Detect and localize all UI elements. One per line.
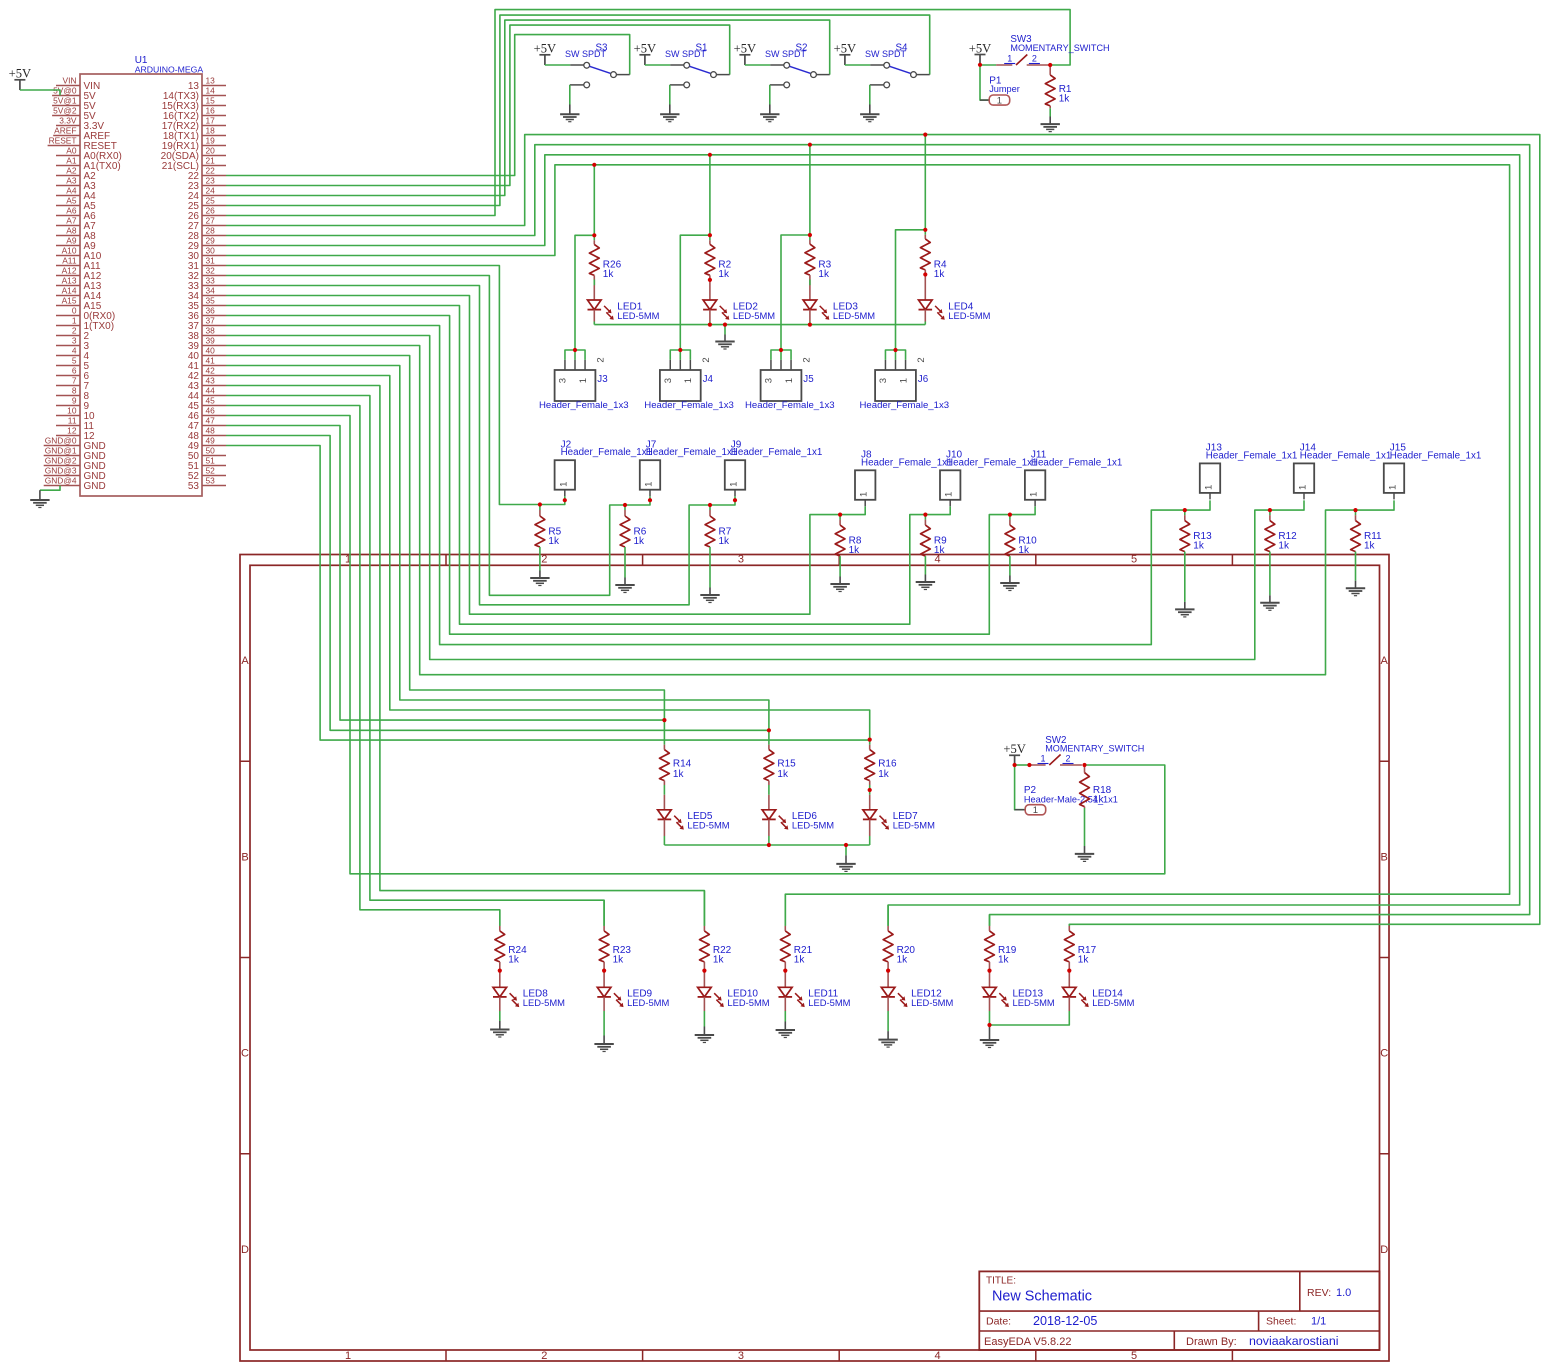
ground stem (R11)	[1355, 581, 1357, 589]
U1 pin A3	[56, 176, 96, 192]
resistor R9	[921, 515, 948, 557]
ground stem (R7)	[709, 588, 711, 596]
svg-text:J6: J6	[918, 374, 929, 385]
wire R7 to ground	[709, 547, 711, 588]
wire net pin28	[226, 145, 1530, 926]
svg-text:SW SPDT: SW SPDT	[665, 49, 707, 59]
resistor R22	[700, 891, 732, 971]
svg-text:32: 32	[206, 266, 216, 276]
wire R12 to ground	[1269, 552, 1271, 596]
svg-text:LED-5MM: LED-5MM	[911, 997, 953, 1008]
U1 pin 3	[56, 336, 90, 352]
wire R1 to ground	[1049, 108, 1051, 116]
svg-text:24: 24	[206, 186, 216, 196]
svg-text:A14: A14	[62, 286, 77, 296]
U1 pin A15	[56, 296, 102, 312]
U1 pin 0	[56, 306, 115, 322]
wire net pin43	[226, 386, 704, 926]
U1 pin 1	[56, 316, 114, 332]
wire net pin30	[226, 165, 1510, 926]
wire net pin42	[226, 376, 870, 740]
resistor R23	[599, 900, 631, 970]
svg-text:1: 1	[944, 492, 955, 497]
wire net pin34	[226, 296, 865, 615]
resistor R24	[495, 910, 527, 971]
LED LED14	[1063, 971, 1135, 1011]
U1 pin AREF	[53, 126, 110, 142]
svg-text:21: 21	[206, 156, 216, 166]
resistor R17	[1064, 924, 1096, 970]
ground (R13)	[1175, 609, 1194, 617]
svg-text:5V@2: 5V@2	[53, 106, 77, 116]
U1 pin GND@3	[44, 466, 106, 482]
svg-text:B: B	[241, 851, 248, 863]
svg-text:1: 1	[558, 482, 569, 487]
svg-text:34: 34	[206, 286, 216, 296]
LED LED3	[803, 286, 875, 325]
U1 pin 42	[188, 366, 226, 382]
power flag +5V (S4)	[834, 42, 857, 65]
svg-text:9: 9	[72, 396, 77, 406]
connector J9 Header_Female_1x1	[725, 440, 823, 497]
U1 pin 15	[162, 96, 226, 112]
svg-text:+5V: +5V	[1003, 742, 1026, 756]
svg-text:2: 2	[541, 1350, 547, 1362]
resistor R21	[780, 894, 812, 970]
wire net pin32	[226, 276, 650, 596]
svg-text:RESET: RESET	[49, 136, 77, 146]
U1 pin 39	[188, 336, 226, 352]
svg-text:Header_Female_1x1: Header_Female_1x1	[1031, 457, 1123, 468]
LED LED10	[698, 971, 770, 1011]
U1 pin 8	[56, 386, 90, 402]
svg-text:A7: A7	[66, 216, 77, 226]
svg-text:2: 2	[596, 357, 607, 362]
wire +5V to SW3 pin1	[980, 64, 996, 66]
svg-text:Jumper: Jumper	[989, 84, 1020, 94]
power flag +5V (S3)	[534, 42, 557, 65]
LED LED13	[983, 971, 1055, 1011]
svg-text:3: 3	[738, 1350, 744, 1362]
switch S4 SW-SPDT	[865, 42, 930, 88]
svg-text:1k: 1k	[718, 269, 730, 280]
resistor R4	[920, 230, 947, 280]
svg-text:SW SPDT: SW SPDT	[865, 49, 907, 59]
svg-text:Header_Female_1x1: Header_Female_1x1	[861, 457, 953, 468]
U1 pin A8	[56, 226, 96, 242]
wire S4 NC throw to ground	[869, 85, 871, 105]
svg-text:noviaakarostiani: noviaakarostiani	[1249, 1334, 1339, 1348]
svg-text:1: 1	[644, 482, 655, 487]
wire ground tap (LED bus)	[724, 325, 726, 335]
svg-text:1: 1	[345, 1350, 351, 1362]
svg-text:LED-5MM: LED-5MM	[733, 310, 775, 321]
svg-text:D: D	[1380, 1244, 1388, 1256]
svg-text:New Schematic: New Schematic	[992, 1289, 1092, 1305]
U1 pin A13	[56, 276, 102, 292]
svg-text:A9: A9	[66, 236, 77, 246]
svg-text:1: 1	[1040, 754, 1045, 764]
svg-text:J4: J4	[703, 374, 714, 385]
ground stem (LED10)	[703, 1027, 705, 1036]
wire net pin33	[226, 286, 735, 605]
ground stem (S1)	[669, 105, 671, 115]
svg-text:SW SPDT: SW SPDT	[565, 49, 607, 59]
svg-text:11: 11	[68, 416, 77, 426]
wire R8 to ground	[839, 556, 841, 576]
svg-text:A6: A6	[66, 206, 77, 216]
wire R18 to ground	[1084, 808, 1086, 846]
svg-text:0: 0	[72, 306, 77, 316]
wire net pin48	[226, 436, 769, 731]
svg-text:4: 4	[72, 346, 77, 356]
svg-text:3: 3	[72, 336, 77, 346]
LED LED7	[863, 795, 935, 845]
svg-text:GND: GND	[84, 481, 106, 492]
svg-text:LED-5MM: LED-5MM	[893, 820, 935, 831]
svg-text:1k: 1k	[508, 955, 520, 966]
power flag +5V (SW3)	[969, 41, 992, 64]
svg-text:53: 53	[206, 476, 216, 486]
ground (S2)	[760, 114, 779, 122]
svg-text:1k: 1k	[1093, 795, 1105, 806]
svg-text:1k: 1k	[897, 955, 909, 966]
svg-text:A1: A1	[66, 156, 77, 166]
svg-text:38: 38	[206, 326, 216, 336]
wire R6 to ground	[624, 547, 626, 578]
svg-text:2: 2	[72, 326, 77, 336]
U1 pin 5V@2	[52, 106, 96, 122]
U1 pin 24	[188, 186, 226, 202]
svg-text:Header_Female_1x1: Header_Female_1x1	[946, 457, 1038, 468]
wire net pin37	[226, 326, 1210, 645]
U1 pin 17	[162, 116, 226, 132]
svg-text:LED-5MM: LED-5MM	[523, 997, 565, 1008]
wire R9 to ground	[924, 556, 926, 574]
wire LED3 column drop	[809, 145, 811, 235]
wire net pin26	[226, 10, 1070, 216]
LED LED4	[919, 286, 991, 325]
U1 pin 46	[188, 406, 226, 422]
U1 pin A1	[56, 156, 121, 172]
U1 pin GND@1	[44, 446, 106, 462]
svg-text:15: 15	[206, 96, 216, 106]
ground stem (R9)	[924, 575, 926, 583]
IC U1 ARDUINO-MEGA body	[80, 55, 203, 496]
wire P1 to +5V	[980, 65, 989, 100]
svg-text:GND@4: GND@4	[45, 476, 77, 486]
svg-text:1k: 1k	[1364, 541, 1376, 552]
U1 pin 49	[188, 436, 226, 452]
resistor R1	[1045, 65, 1072, 108]
wire LED11 to ground	[784, 1011, 786, 1022]
svg-text:+5V: +5V	[969, 41, 992, 55]
svg-text:B: B	[1381, 851, 1388, 863]
connector J6 Header_Female_1x3	[860, 350, 950, 411]
svg-text:C: C	[1380, 1048, 1388, 1060]
ground stem (LED13)	[989, 1025, 991, 1040]
connector J11 Header_Female_1x1	[1025, 450, 1123, 507]
U1 pin GND@2	[44, 456, 106, 472]
svg-text:1: 1	[1204, 485, 1215, 490]
svg-text:25: 25	[206, 196, 216, 206]
ground (R12)	[1260, 603, 1279, 611]
wire net pin27	[226, 135, 1540, 926]
LED LED9	[597, 971, 669, 1011]
svg-text:Header_Female_1x3: Header_Female_1x3	[745, 400, 835, 411]
U1 pin RESET	[48, 136, 117, 152]
ground stem (R8)	[839, 577, 841, 585]
svg-text:+5V: +5V	[834, 42, 857, 56]
U1 pin 3.3V	[56, 116, 104, 132]
U1 pin 33	[188, 276, 226, 292]
svg-text:LED-5MM: LED-5MM	[792, 820, 834, 831]
wire R16-LED7	[869, 781, 871, 785]
svg-text:A3: A3	[66, 176, 77, 186]
U1 pin 16	[163, 106, 226, 122]
ground stem (LED9)	[603, 1036, 605, 1045]
svg-text:44: 44	[206, 386, 216, 396]
U1 pin VIN	[56, 76, 100, 92]
svg-text:1k: 1k	[1059, 93, 1071, 104]
svg-text:7: 7	[72, 376, 77, 386]
svg-text:1k: 1k	[603, 269, 615, 280]
sheet border frame	[240, 554, 1389, 1362]
wire +5V to SW2 pin1	[1015, 764, 1030, 766]
U1 pin 11	[56, 416, 94, 432]
wire net pin31	[226, 266, 565, 505]
svg-text:1k: 1k	[878, 769, 890, 780]
switch S1 SW-SPDT	[665, 42, 730, 88]
svg-text:LED-5MM: LED-5MM	[808, 997, 850, 1008]
wire net pin47	[226, 426, 664, 721]
U1 pin 5V@0	[52, 86, 96, 102]
svg-text:42: 42	[206, 366, 216, 376]
connector J10 Header_Female_1x1	[940, 450, 1038, 507]
svg-text:+5V: +5V	[734, 42, 757, 56]
wire R13 to ground	[1184, 552, 1186, 602]
switch S3 SW-SPDT	[565, 42, 630, 88]
svg-text:49: 49	[206, 436, 216, 446]
resistor R6	[620, 505, 647, 547]
svg-text:3: 3	[878, 378, 889, 383]
svg-text:LED-5MM: LED-5MM	[1013, 997, 1055, 1008]
U1 pin A4	[56, 186, 96, 202]
svg-text:27: 27	[206, 216, 216, 226]
ground stem (R10)	[1009, 576, 1011, 584]
svg-text:VIN: VIN	[63, 76, 77, 86]
U1 pin 20	[161, 146, 226, 162]
wire net pin35	[226, 306, 950, 625]
svg-text:LED-5MM: LED-5MM	[727, 997, 769, 1008]
svg-text:1: 1	[729, 482, 740, 487]
ground (R6)	[615, 585, 634, 593]
wire net pin36	[226, 316, 1035, 635]
svg-text:LED-5MM: LED-5MM	[948, 310, 990, 321]
wire LED14 to LED13 ground	[990, 1011, 1070, 1025]
U1 pin A6	[56, 206, 96, 222]
jumper P1	[980, 75, 1020, 106]
svg-text:47: 47	[206, 416, 216, 426]
U1 pin 44	[188, 386, 226, 402]
svg-text:1: 1	[1388, 485, 1399, 490]
wire R2-LED2	[709, 275, 711, 285]
U1 pin 36	[188, 306, 226, 322]
wire net pin29	[226, 155, 1520, 926]
resistor R10	[1005, 515, 1037, 557]
svg-text:A8: A8	[66, 226, 77, 236]
wire LED12 to ground	[887, 1011, 889, 1031]
svg-text:29: 29	[206, 236, 216, 246]
LED LED2	[703, 286, 775, 325]
wire branch to header at x=575	[575, 235, 594, 350]
connector J4 Header_Female_1x3	[644, 350, 734, 411]
svg-text:43: 43	[206, 376, 216, 386]
ground (R10)	[1000, 583, 1019, 591]
svg-text:31: 31	[206, 256, 216, 266]
wire LED13 to ground junction	[989, 1011, 991, 1025]
svg-text:A5: A5	[66, 196, 77, 206]
U1 pin 12	[56, 426, 95, 442]
ground stem (R12)	[1269, 595, 1271, 603]
svg-text:TITLE:: TITLE:	[986, 1276, 1016, 1287]
svg-text:19: 19	[206, 136, 216, 146]
svg-text:17: 17	[206, 116, 216, 126]
U1 pin 29	[188, 236, 226, 252]
ground stem (R18)	[1084, 846, 1086, 854]
svg-text:AREF: AREF	[54, 126, 76, 136]
connector J2 Header_Female_1x1	[555, 440, 653, 497]
svg-text:C: C	[241, 1048, 249, 1060]
power flag +5V (S1)	[634, 42, 657, 65]
U1 pin 48	[188, 426, 226, 442]
svg-text:1k: 1k	[1018, 545, 1030, 556]
wire R5 to ground	[539, 547, 541, 571]
wire LED10 to ground	[703, 1011, 705, 1027]
svg-text:A4: A4	[66, 186, 77, 196]
U1 pin 51	[188, 456, 226, 472]
svg-text:Drawn By:: Drawn By:	[1186, 1336, 1237, 1348]
connector J3 Header_Female_1x3	[539, 350, 629, 411]
svg-text:23: 23	[206, 176, 216, 186]
ground (R18)	[1075, 854, 1094, 862]
U1 pin A9	[56, 236, 96, 252]
U1 pin 13	[188, 76, 226, 92]
ground stem (S2)	[769, 105, 771, 115]
U1 pin 21	[162, 156, 226, 172]
ground stem (R5)	[539, 571, 541, 579]
svg-text:1k: 1k	[1193, 541, 1205, 552]
title block	[979, 1271, 1379, 1350]
ground (LED11)	[776, 1030, 795, 1038]
U1 pin 31	[188, 256, 226, 272]
svg-text:Header_Female_1x3: Header_Female_1x3	[644, 400, 734, 411]
U1 pin 45	[188, 396, 226, 412]
U1 pin 9	[56, 396, 90, 412]
svg-text:+5V: +5V	[534, 42, 557, 56]
wire +5V to S1	[645, 64, 670, 66]
ground (LED13)	[980, 1040, 999, 1048]
wire +5V to U1 5V@0	[20, 90, 60, 96]
U1 pin A12	[56, 266, 102, 282]
svg-text:39: 39	[206, 336, 216, 346]
svg-text:Header_Female_1x1: Header_Female_1x1	[561, 447, 653, 458]
switch SW2 MOMENTARY_SWITCH	[1029, 735, 1144, 765]
svg-text:1k: 1k	[998, 955, 1010, 966]
LED LED1	[588, 286, 660, 325]
svg-text:A13: A13	[62, 276, 77, 286]
resistor R13	[1180, 510, 1212, 551]
svg-text:20: 20	[206, 146, 216, 156]
svg-text:SW SPDT: SW SPDT	[765, 49, 807, 59]
svg-text:1k: 1k	[613, 955, 625, 966]
U1 pin A7	[56, 216, 96, 232]
svg-text:1: 1	[1033, 805, 1038, 816]
U1 pin 32	[188, 266, 226, 282]
svg-text:R14: R14	[673, 758, 692, 769]
svg-text:R15: R15	[777, 758, 796, 769]
ground (LED9)	[594, 1044, 613, 1052]
svg-text:Header_Female_1x1: Header_Female_1x1	[731, 447, 823, 458]
ground stem (LED bus)	[724, 335, 726, 342]
svg-text:Header_Female_1x1: Header_Female_1x1	[1206, 450, 1298, 461]
resistor R2	[705, 235, 732, 280]
U1 pin 5V@1	[52, 96, 96, 112]
resistor R16	[865, 740, 897, 781]
wire P2 to +5V	[1015, 765, 1026, 810]
U1 pin 35	[188, 296, 226, 312]
U1 pin 53	[188, 476, 226, 492]
svg-text:26: 26	[206, 206, 216, 216]
wire LED4 column drop	[924, 135, 926, 230]
svg-text:Header_Female_1x1: Header_Female_1x1	[1300, 450, 1392, 461]
resistor R3	[805, 235, 832, 280]
svg-text:50: 50	[206, 446, 216, 456]
wire net pin25	[226, 15, 930, 205]
ground (LED12)	[878, 1040, 897, 1048]
svg-text:Date:: Date:	[986, 1316, 1011, 1328]
U1 pin 40	[188, 346, 226, 362]
ground stem (S3)	[569, 105, 571, 115]
svg-text:3: 3	[558, 378, 569, 383]
svg-text:51: 51	[206, 456, 216, 466]
U1 pin 23	[188, 176, 226, 192]
ground stem (S4)	[869, 105, 871, 115]
svg-text:1k: 1k	[634, 536, 646, 547]
wire R15-LED6	[768, 781, 770, 785]
U1 pin A10	[56, 246, 102, 262]
wire net pin40	[226, 356, 664, 721]
svg-text:Header_Female_1x3: Header_Female_1x3	[860, 400, 950, 411]
ground stem (LED5-7 bus)	[845, 855, 847, 864]
svg-text:8: 8	[72, 386, 77, 396]
svg-text:1k: 1k	[849, 545, 861, 556]
svg-text:1: 1	[898, 378, 909, 383]
svg-text:Header_Female_1x3: Header_Female_1x3	[539, 400, 629, 411]
svg-text:5: 5	[1131, 554, 1137, 566]
svg-text:36: 36	[206, 306, 216, 316]
svg-text:1k: 1k	[1278, 541, 1290, 552]
svg-text:A: A	[1381, 655, 1389, 667]
svg-text:52: 52	[206, 466, 216, 476]
svg-text:GND@0: GND@0	[45, 436, 77, 446]
ground stem (LED8)	[499, 1021, 501, 1030]
svg-text:5: 5	[72, 356, 77, 366]
svg-text:J3: J3	[597, 374, 608, 385]
svg-text:1: 1	[997, 95, 1002, 106]
power flag +5V (S2)	[734, 42, 757, 65]
header P2 (jumper)	[1015, 785, 1118, 816]
